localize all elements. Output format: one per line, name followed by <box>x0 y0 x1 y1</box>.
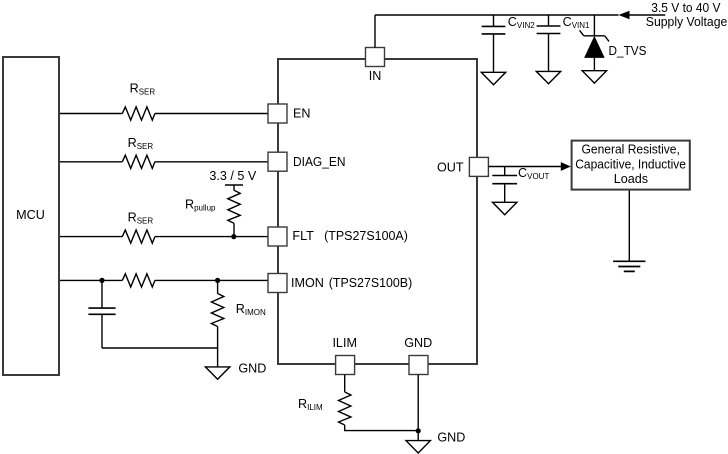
loads box <box>572 141 690 190</box>
wire loads to earth <box>628 191 630 262</box>
node junction FLT/pullup <box>231 234 236 239</box>
resistor RSER (DIAG_EN) <box>122 155 155 168</box>
svg-text:3.5 V to 40 V: 3.5 V to 40 V <box>651 1 721 15</box>
wire IMON bottom <box>102 347 218 349</box>
svg-text:(TPS27S100B): (TPS27S100B) <box>329 276 412 290</box>
svg-text:D_TVS: D_TVS <box>609 44 647 58</box>
pin FLT <box>268 227 287 246</box>
wire DIAG_EN net <box>60 161 268 163</box>
IC U1 TPS27S100 main block <box>278 59 477 364</box>
svg-text:Capacitive, Inductive: Capacitive, Inductive <box>575 158 686 172</box>
wire OUT net <box>488 166 561 168</box>
ground (CVIN1) <box>536 71 560 83</box>
svg-text:General Resistive,: General Resistive, <box>582 143 680 157</box>
ground (D_TVS) <box>582 71 606 83</box>
svg-text:IMON: IMON <box>291 276 324 290</box>
pin IN <box>366 48 385 67</box>
MCU block <box>3 57 59 375</box>
resistor RSER (FLT) <box>122 230 155 243</box>
pin IMON <box>268 274 287 293</box>
node junction GND <box>416 428 421 433</box>
svg-text:FLT: FLT <box>292 229 314 243</box>
svg-text:IN: IN <box>369 69 382 83</box>
wire supply top rail <box>375 14 665 16</box>
ground (CVOUT) <box>493 202 517 214</box>
svg-text:MCU: MCU <box>16 208 45 222</box>
svg-text:GND: GND <box>238 362 266 376</box>
ground (IMON) <box>205 367 229 379</box>
ground earth (loads) <box>613 261 645 271</box>
svg-text:GND: GND <box>437 431 465 445</box>
diode D_TVS <box>593 15 595 36</box>
wire IN stem <box>374 15 376 48</box>
capacitor CVOUT <box>504 167 506 176</box>
supply arrow head <box>619 11 630 20</box>
wire GND pin stem <box>417 375 419 441</box>
resistor Rpullup <box>228 190 240 223</box>
node junction IMON left <box>99 278 104 283</box>
load arrow head <box>561 162 571 171</box>
capacitor CVIN1 <box>548 15 550 26</box>
node junction IMON right <box>215 278 220 283</box>
capacitor CVIN2 <box>493 15 495 26</box>
wire IMON net <box>60 279 268 281</box>
resistor RILIM <box>344 375 346 392</box>
pin EN <box>268 104 287 123</box>
pin GND <box>409 356 428 375</box>
resistor RSER (EN) <box>122 107 155 120</box>
wire EN net <box>60 113 268 115</box>
svg-text:GND: GND <box>404 336 432 350</box>
ground (GND pin) <box>406 441 430 453</box>
resistor RIMON <box>217 280 219 293</box>
svg-text:OUT: OUT <box>437 160 464 174</box>
pin ILIM <box>336 356 355 375</box>
svg-text:ILIM: ILIM <box>332 336 357 350</box>
svg-text:DIAG_EN: DIAG_EN <box>293 155 346 169</box>
svg-text:EN: EN <box>293 107 311 121</box>
svg-text:(TPS27S100A): (TPS27S100A) <box>324 229 408 243</box>
capacitor (IMON filter) <box>101 280 103 307</box>
svg-text:Loads: Loads <box>614 172 648 186</box>
ground (CVIN2) <box>481 72 505 84</box>
svg-text:Supply Voltage: Supply Voltage <box>646 15 728 29</box>
pin DIAG_EN <box>268 152 287 171</box>
pin OUT <box>469 157 488 176</box>
wire FLT net <box>60 236 268 238</box>
resistor (IMON series) <box>122 274 155 287</box>
node 3.3/5V supply tick <box>225 185 243 190</box>
svg-text:3.3 / 5 V: 3.3 / 5 V <box>209 169 257 183</box>
